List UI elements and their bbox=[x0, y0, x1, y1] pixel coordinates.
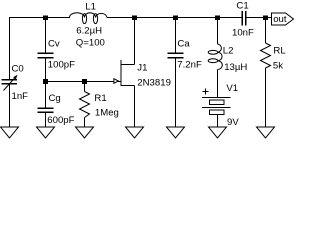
svg-text:600pF: 600pF bbox=[47, 115, 74, 126]
svg-text:RL: RL bbox=[273, 46, 286, 57]
svg-text:L1: L1 bbox=[85, 2, 96, 13]
svg-text:1Meg: 1Meg bbox=[95, 108, 119, 119]
svg-text:9V: 9V bbox=[227, 117, 239, 128]
svg-text:5k: 5k bbox=[273, 60, 283, 71]
svg-text:1nF: 1nF bbox=[12, 91, 29, 102]
svg-text:2N3819: 2N3819 bbox=[137, 77, 171, 88]
svg-text:100pF: 100pF bbox=[48, 59, 75, 70]
svg-text:C1: C1 bbox=[236, 0, 248, 11]
svg-text:6.2µH: 6.2µH bbox=[76, 25, 102, 36]
svg-text:Cg: Cg bbox=[49, 93, 61, 104]
svg-text:V1: V1 bbox=[226, 83, 238, 94]
svg-text:Q=100: Q=100 bbox=[76, 37, 105, 48]
svg-text:R1: R1 bbox=[94, 93, 106, 104]
svg-text:10nF: 10nF bbox=[232, 28, 254, 39]
svg-text:13µH: 13µH bbox=[224, 62, 247, 73]
svg-text:Ca: Ca bbox=[177, 39, 190, 50]
svg-text:C0: C0 bbox=[12, 63, 24, 74]
svg-text:out: out bbox=[273, 14, 287, 25]
svg-text:Cv: Cv bbox=[48, 39, 60, 50]
svg-text:J1: J1 bbox=[137, 62, 147, 73]
svg-text:L2: L2 bbox=[223, 46, 234, 57]
svg-text:7.2nF: 7.2nF bbox=[177, 59, 202, 70]
